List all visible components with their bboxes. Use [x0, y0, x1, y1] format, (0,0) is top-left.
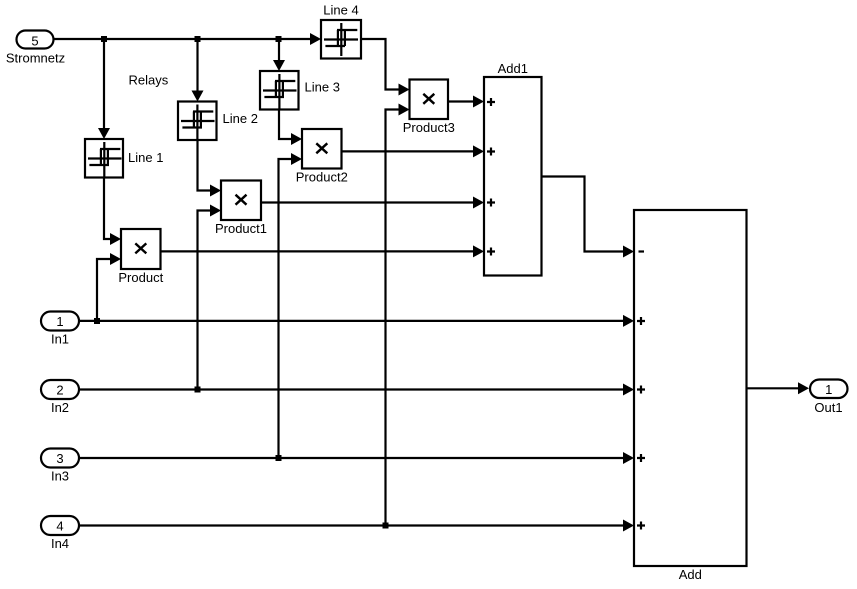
svg-text:1: 1: [825, 382, 832, 397]
node junction on In3 wire: [276, 455, 282, 461]
wire In4 to Add input 5: [79, 524, 623, 526]
input port 5 Stromnetz: [6, 31, 65, 66]
svg-text:Add: Add: [679, 567, 702, 582]
svg-text:In4: In4: [51, 536, 69, 551]
wire branch down to Line 2: [196, 39, 198, 91]
wire In1 branch up to Product input 2: [97, 259, 110, 321]
wire branch down to Line 3: [278, 39, 280, 60]
input port In3: [41, 449, 79, 484]
svg-text:In1: In1: [51, 332, 69, 347]
svg-text:3: 3: [56, 451, 63, 466]
wire Add1 output to Add input 1: [542, 177, 624, 252]
svg-text:Relays: Relays: [129, 73, 169, 88]
wire In3 branch up to Product2 input 2: [279, 159, 292, 458]
input port In2: [41, 380, 79, 415]
node junction on Stromnetz wire at Line 3 branch: [276, 36, 282, 42]
wire Product output to Add1 input 4: [161, 250, 474, 252]
svg-text:Product3: Product3: [403, 120, 455, 135]
svg-text:Stromnetz: Stromnetz: [6, 51, 65, 66]
svg-text:Line 4: Line 4: [323, 3, 358, 18]
relay Line 2: [178, 102, 258, 141]
wire In4 branch up to Product3 input 2: [386, 110, 399, 526]
svg-text:Product1: Product1: [215, 221, 267, 236]
wire Product1 output to Add1 input 3: [261, 201, 473, 203]
wire arrow into Line 4: [310, 33, 321, 45]
wire Line 3 output to Product2 input 1: [279, 110, 291, 140]
wire Line 2 output to Product1 input 1: [198, 140, 211, 191]
multiplier Product2: [296, 129, 348, 185]
relay Line 4: [321, 3, 361, 59]
input port In4: [41, 516, 79, 551]
multiplier Product3: [403, 80, 455, 136]
node junction on In2 wire: [195, 387, 201, 393]
node junction on Stromnetz wire at Line 2 branch: [195, 36, 201, 42]
wire Product3 output to Add1 input 1: [448, 100, 473, 102]
multiplier Product: [118, 229, 163, 285]
relay Line 3: [260, 71, 340, 110]
svg-text:4: 4: [56, 519, 63, 534]
wire Line 4 output to Product3 input 1: [361, 39, 399, 90]
wire Add output to Out1: [747, 387, 799, 389]
svg-text:5: 5: [31, 33, 38, 48]
svg-text:Add1: Add1: [498, 61, 528, 76]
svg-text:In2: In2: [51, 400, 69, 415]
svg-text:Product: Product: [118, 270, 163, 285]
adder Add: [634, 210, 747, 582]
node junction on In4 wire: [383, 523, 389, 529]
svg-text:Out1: Out1: [814, 400, 842, 415]
wire branch down to Line 1: [103, 39, 105, 128]
svg-text:Line 2: Line 2: [223, 111, 258, 126]
wire Stromnetz main horizontal: [54, 38, 312, 40]
node junction on In1 wire: [94, 318, 100, 324]
wire Product2 output to Add1 input 2: [342, 150, 474, 152]
wire In3 to Add input 4: [79, 457, 623, 459]
wire Line 1 output to Product input 1: [104, 178, 110, 240]
svg-text:2: 2: [56, 383, 63, 398]
svg-text:Line 1: Line 1: [128, 150, 163, 165]
wire In2 branch up to Product1 input 2: [198, 211, 211, 390]
relay Line 1: [85, 139, 163, 178]
multiplier Product1: [215, 181, 267, 237]
svg-text:Line 3: Line 3: [305, 80, 340, 95]
node junction on Stromnetz wire at Line 1 branch: [101, 36, 107, 42]
svg-text:1: 1: [56, 314, 63, 329]
wire In1 to Add input 2: [79, 320, 623, 322]
input port In1: [41, 312, 79, 347]
output port Out1: [810, 380, 848, 416]
adder Add1: [484, 61, 542, 276]
svg-text:In3: In3: [51, 469, 69, 484]
svg-text:Product2: Product2: [296, 170, 348, 185]
wire In2 to Add input 3: [79, 388, 623, 390]
